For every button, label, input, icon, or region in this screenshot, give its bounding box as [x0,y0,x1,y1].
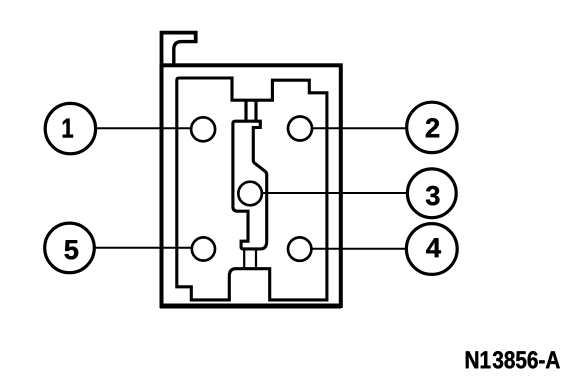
callout number 2 [426,118,439,137]
leader line callout 5 to pin 5 [93,247,193,249]
leader line callout 1 to pin 1 [95,127,191,129]
leader line pin 2 to callout 2 [312,127,407,129]
callout circle 3 [407,169,456,218]
connector outer housing rectangle [160,65,341,306]
callout number 5 [65,240,79,259]
pin 1 (top-left terminal) [191,117,215,141]
callout number 4 [426,238,441,257]
upper neck right line joining notch to central channel [254,99,257,122]
callout number 3 [426,186,440,205]
callout circle 4 [406,224,457,275]
leader line pin 4 to callout 4 [311,248,406,250]
callout circle 5 [45,223,95,273]
callout circle 1 [45,103,95,153]
pin 3 (center terminal) [238,182,262,206]
pin 2 (top-right terminal) [288,117,312,141]
locking tab at top-left of housing [162,33,198,67]
leader line pin 3 to callout 3 [262,192,408,194]
central keyway channel outline [233,121,267,249]
pin 5 (bottom-left terminal) [192,237,215,260]
lower neck right line joining channel foot to pedestal [255,248,257,270]
inner cavity outline with top notch, keyed steps and bottom pedestal [177,78,327,300]
upper neck left line joining notch to central channel [244,99,247,122]
callout circle 2 [407,102,457,152]
pin 4 (bottom-right terminal) [288,237,311,260]
callout number 1 [63,119,73,138]
figure reference label N13856-A [466,351,560,368]
lower neck left line joining channel foot to pedestal [243,248,245,270]
